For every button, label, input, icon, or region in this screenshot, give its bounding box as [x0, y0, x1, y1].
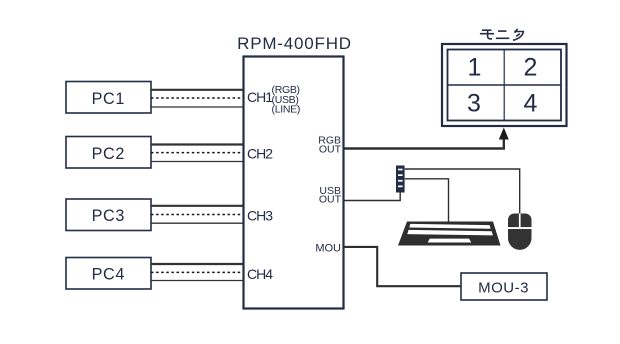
- monitor outer frame: [442, 44, 567, 126]
- svg-text:PC2: PC2: [92, 145, 125, 163]
- svg-text:CH2: CH2: [247, 146, 273, 162]
- svg-text:CH3: CH3: [247, 208, 273, 224]
- svg-text:PC1: PC1: [92, 90, 125, 108]
- svg-text:3: 3: [467, 90, 481, 118]
- wire PC3-CH3 LINE (thin): [151, 222, 243, 224]
- port label USB OUT: [319, 185, 342, 206]
- glyph ニ: [498, 30, 507, 32]
- svg-text:(LINE): (LINE): [272, 104, 301, 116]
- wire PC3-CH3 RGB (thick): [151, 205, 243, 207]
- wire USB OUT to hub: [345, 192, 401, 201]
- svg-text:PC3: PC3: [92, 207, 125, 225]
- wire PC3-CH3 USB (dotted): [151, 214, 243, 216]
- glyph モ: [482, 29, 492, 31]
- USB hub slot 1: [398, 169, 403, 171]
- svg-text:PC4: PC4: [92, 266, 125, 284]
- wire RGB OUT to monitor: [345, 138, 504, 149]
- wire PC1-CH1 LINE (thin): [151, 106, 243, 108]
- PC1 box: [66, 82, 151, 114]
- keyboard key row 2 (white): [407, 230, 493, 236]
- USB hub slot 2: [398, 174, 403, 176]
- wire PC1-CH1 USB (dotted): [151, 97, 243, 99]
- wire hub to keyboard: [405, 179, 449, 222]
- monitor label モニタ (drawn as paths): [480, 29, 524, 40]
- wire PC2-CH2 USB (dotted): [151, 152, 243, 154]
- svg-text:RPM-400FHD: RPM-400FHD: [237, 34, 352, 53]
- wire PC4-CH4 RGB (thick): [151, 263, 243, 265]
- PC2 box: [66, 137, 151, 169]
- mouse button divider horizontal: [508, 227, 532, 229]
- svg-text:MOU: MOU: [315, 243, 341, 255]
- MOU-3 box: [461, 273, 547, 300]
- svg-text:MOU-3: MOU-3: [478, 279, 529, 296]
- mouse body: [508, 214, 532, 250]
- keyboard spacebar (white): [428, 239, 472, 243]
- svg-text:OUT: OUT: [319, 194, 342, 206]
- switcher unit RPM-400FHD box: [244, 57, 344, 309]
- wire PC2-CH2 RGB (thick): [151, 143, 243, 145]
- glyph タ: [515, 29, 518, 33]
- wire PC2-CH2 LINE (thin): [151, 161, 243, 163]
- svg-text:4: 4: [524, 90, 538, 118]
- arrowhead into monitor: [499, 128, 509, 140]
- USB hub slot 4: [398, 186, 403, 188]
- wire PC4-CH4 USB (dotted): [151, 271, 243, 273]
- port label RGB OUT: [318, 135, 341, 156]
- svg-text:OUT: OUT: [319, 144, 342, 156]
- keyboard body: [398, 222, 501, 246]
- svg-text:CH4: CH4: [247, 266, 273, 282]
- svg-text:CH1: CH1: [247, 89, 273, 105]
- wire PC4-CH4 LINE (thin): [151, 280, 243, 282]
- monitor divider horizontal: [448, 84, 562, 86]
- mouse scroll divider vertical: [519, 214, 521, 228]
- svg-text:2: 2: [524, 54, 538, 82]
- PC4 box: [66, 258, 151, 290]
- svg-text:1: 1: [468, 54, 482, 82]
- PC3 box: [66, 199, 151, 231]
- USB hub body: [397, 166, 405, 192]
- wire MOU to MOU-3: [345, 247, 462, 286]
- wire PC1-CH1 RGB (thick): [151, 89, 243, 91]
- monitor inner frame: [448, 50, 562, 121]
- keyboard key row 1 (white): [409, 224, 490, 229]
- monitor divider vertical: [503, 50, 505, 121]
- USB hub slot 3: [398, 180, 403, 182]
- wire hub to mouse: [405, 169, 520, 214]
